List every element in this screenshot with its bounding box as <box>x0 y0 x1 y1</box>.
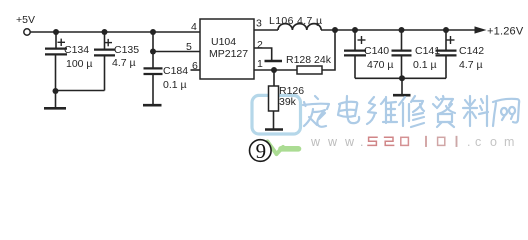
wire pin 3 to inductor <box>254 29 278 31</box>
wire bottom rail caps <box>355 77 446 79</box>
svg-text:MP2127: MP2127 <box>209 48 248 60</box>
watermark char xiu <box>399 96 424 127</box>
wire output rail <box>321 29 475 31</box>
junction dot H (C141) <box>399 27 405 33</box>
svg-text:4.7 µ: 4.7 µ <box>459 59 483 71</box>
watermark logo box <box>252 95 301 134</box>
svg-text:.com: .com <box>467 135 514 149</box>
svg-text:R128 24k: R128 24k <box>286 54 332 66</box>
junction dot D <box>53 88 59 94</box>
junction dot E <box>150 49 156 55</box>
svg-text:100 µ: 100 µ <box>66 58 93 70</box>
output arrow <box>475 26 487 33</box>
wire pin 2 <box>254 48 272 60</box>
watermark digits 520101 <box>368 137 457 146</box>
svg-text:1: 1 <box>257 58 263 70</box>
pin 6 stub <box>191 69 201 71</box>
input terminal <box>24 29 30 35</box>
wire bottom link C134-C135 <box>56 90 105 92</box>
svg-text:L106 4.7 µ: L106 4.7 µ <box>269 15 322 27</box>
svg-text:39k: 39k <box>279 96 297 108</box>
watermark char zi <box>433 96 455 127</box>
ground under C184 <box>143 104 162 107</box>
svg-text:C134: C134 <box>64 44 89 56</box>
ground pin 2 <box>265 60 283 63</box>
junction dot I (C142) <box>443 27 449 33</box>
svg-text:3: 3 <box>256 17 262 29</box>
watermark char liao <box>463 96 488 126</box>
svg-text:+5V: +5V <box>16 14 35 26</box>
watermark chinese characters <box>303 96 519 127</box>
capacitor C142 <box>436 30 457 78</box>
wire pin 1 <box>254 69 297 71</box>
svg-text:C135: C135 <box>114 44 139 56</box>
ground under caps <box>393 78 411 95</box>
ground under C134 <box>44 91 66 108</box>
junction dot K <box>399 75 405 81</box>
svg-text:+1.26V: +1.26V <box>487 26 524 38</box>
page number circled 9 <box>249 139 271 163</box>
watermark url www.520101.com <box>310 135 514 149</box>
svg-text:9: 9 <box>256 139 267 163</box>
svg-text:0.1 µ: 0.1 µ <box>413 59 437 71</box>
capacitor C141 <box>392 30 412 78</box>
watermark char dian <box>338 96 359 123</box>
svg-text:C142: C142 <box>459 45 484 57</box>
resistor R126 <box>269 70 279 129</box>
watermark char wang <box>493 99 519 126</box>
inductor L106 <box>278 24 321 30</box>
watermark char jia <box>303 96 329 127</box>
junction dot A <box>53 29 59 35</box>
svg-text:470 µ: 470 µ <box>367 59 394 71</box>
svg-text:0.1 µ: 0.1 µ <box>163 79 187 91</box>
svg-text:4.7 µ: 4.7 µ <box>112 57 136 69</box>
junction dot J <box>271 67 277 73</box>
junction dot C <box>150 29 156 35</box>
wire top rail left <box>31 31 201 33</box>
capacitor C134 <box>45 32 67 91</box>
watermark green check <box>268 142 299 155</box>
capacitor C135 <box>94 32 115 91</box>
svg-text:www.: www. <box>310 135 363 149</box>
watermark char wei <box>367 97 397 124</box>
svg-text:C140: C140 <box>364 45 389 57</box>
svg-text:4: 4 <box>191 21 197 33</box>
op-amp U104 <box>200 19 254 79</box>
junction dot G (C140) <box>352 27 358 33</box>
junction dot F (R128 riser) <box>332 27 338 33</box>
svg-text:U104: U104 <box>211 36 236 48</box>
svg-text:2: 2 <box>257 39 263 51</box>
capacitor C140 <box>344 30 366 78</box>
capacitor C184 <box>144 68 163 104</box>
wire R128 to rail <box>322 30 335 70</box>
svg-text:5: 5 <box>186 41 192 53</box>
junction dot B <box>102 29 108 35</box>
svg-text:C184: C184 <box>163 65 188 77</box>
ground under R126 <box>265 128 283 131</box>
wire branch to pin5 and C184 <box>152 32 154 68</box>
wire pin 5 <box>153 51 200 53</box>
resistor R128 <box>297 66 322 74</box>
